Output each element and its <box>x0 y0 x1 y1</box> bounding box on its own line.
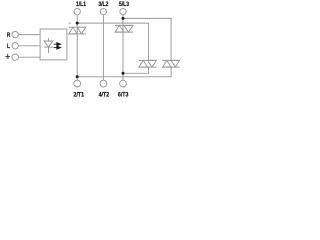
svg-text:3/L2: 3/L2 <box>98 2 109 9</box>
junction dot L1-bus1 <box>76 22 79 25</box>
LED D1 anode lead <box>48 38 50 41</box>
svg-text:R: R <box>7 33 11 40</box>
svg-text:1/L1: 1/L1 <box>76 2 87 9</box>
triac Q1 (L1 direct) <box>69 27 86 34</box>
terminal 3/L2 circle <box>100 8 106 14</box>
triac Q3 (crossed path to T3) <box>139 60 156 67</box>
wire L2 vertical <box>102 15 104 81</box>
junction dot T1 bus <box>76 75 79 78</box>
terminal 6/T3 circle <box>120 80 127 87</box>
wire PE to box <box>18 56 40 58</box>
svg-text:6/T3: 6/T3 <box>118 91 129 99</box>
terminal 1/L1 circle <box>74 8 80 14</box>
terminal R circle <box>12 31 18 37</box>
LED D1 triangle <box>44 41 53 47</box>
LED D1 cathode lead <box>48 47 50 53</box>
wire bus2 L3 horizontal <box>123 18 171 60</box>
optocoupler arrows <box>54 43 61 49</box>
triac Q2 (L3 direct) <box>115 25 133 32</box>
wire bus1 stub <box>69 22 71 24</box>
terminal L circle <box>12 43 18 49</box>
svg-text:L: L <box>7 44 11 51</box>
svg-text:2/T1: 2/T1 <box>74 91 85 99</box>
wire Q4 bottom to T1 bus <box>77 67 171 77</box>
LED D1 cathode bar <box>44 46 53 48</box>
junction dot L3-bus2 <box>122 17 125 20</box>
wire bus1 L1 horizontal <box>77 23 148 60</box>
control box U1 <box>40 29 67 60</box>
wire L3 vertical <box>122 15 124 81</box>
wire R to box <box>18 34 40 36</box>
triac Q4 (crossed path to T1) <box>163 60 180 67</box>
terminal PE circle <box>12 54 18 60</box>
svg-text:5/L3: 5/L3 <box>119 2 130 9</box>
svg-text:4/T2: 4/T2 <box>99 91 110 99</box>
wire L1 vertical <box>76 15 78 81</box>
earth symbol <box>6 54 10 58</box>
wire Q3 bottom to T3 bus <box>123 67 149 73</box>
terminal 2/T1 circle <box>74 80 81 87</box>
terminal 4/T2 circle <box>100 80 107 87</box>
terminal 5/L3 circle <box>120 8 126 14</box>
junction dot T3 bus <box>122 72 125 75</box>
wire L to box <box>18 45 40 47</box>
